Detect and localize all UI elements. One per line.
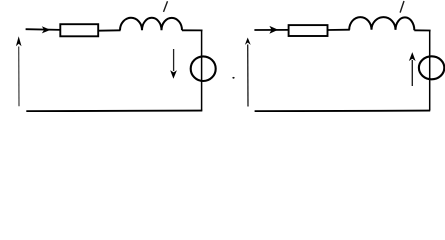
current source I1	[191, 56, 216, 81]
wire bottom	[26, 110, 202, 113]
current arrow i (beside source, pointing down)	[170, 49, 177, 79]
wire right vertical	[201, 30, 203, 110]
label l (above inductor L2)	[400, 1, 404, 13]
wire resistor to inductor	[98, 29, 120, 31]
current arrow i (beside source, pointing up)	[409, 52, 416, 86]
voltage arrow u1 (far left, pointing up)	[16, 36, 22, 106]
resistor R1	[60, 24, 98, 36]
wire resistor to inductor	[328, 29, 350, 31]
current source I2	[419, 56, 444, 79]
wire inductor to top-right corner	[414, 29, 430, 31]
current arrow i2 (on top wire, pointing right)	[269, 26, 278, 34]
wire top-left segment	[254, 29, 289, 31]
wire right vertical	[429, 31, 431, 111]
inductor L2	[349, 17, 414, 30]
label l (above inductor L1)	[164, 1, 168, 12]
dot separator between figures	[232, 77, 234, 79]
inductor L1	[120, 18, 182, 30]
voltage arrow u2 (left of circuit, pointing up)	[245, 38, 251, 107]
wire top-left segment	[26, 28, 61, 31]
current arrow i1 (on top wire, pointing right)	[42, 26, 51, 33]
resistor R2	[289, 25, 328, 36]
wire inductor to top-right corner	[182, 29, 203, 31]
wire bottom	[255, 110, 431, 113]
